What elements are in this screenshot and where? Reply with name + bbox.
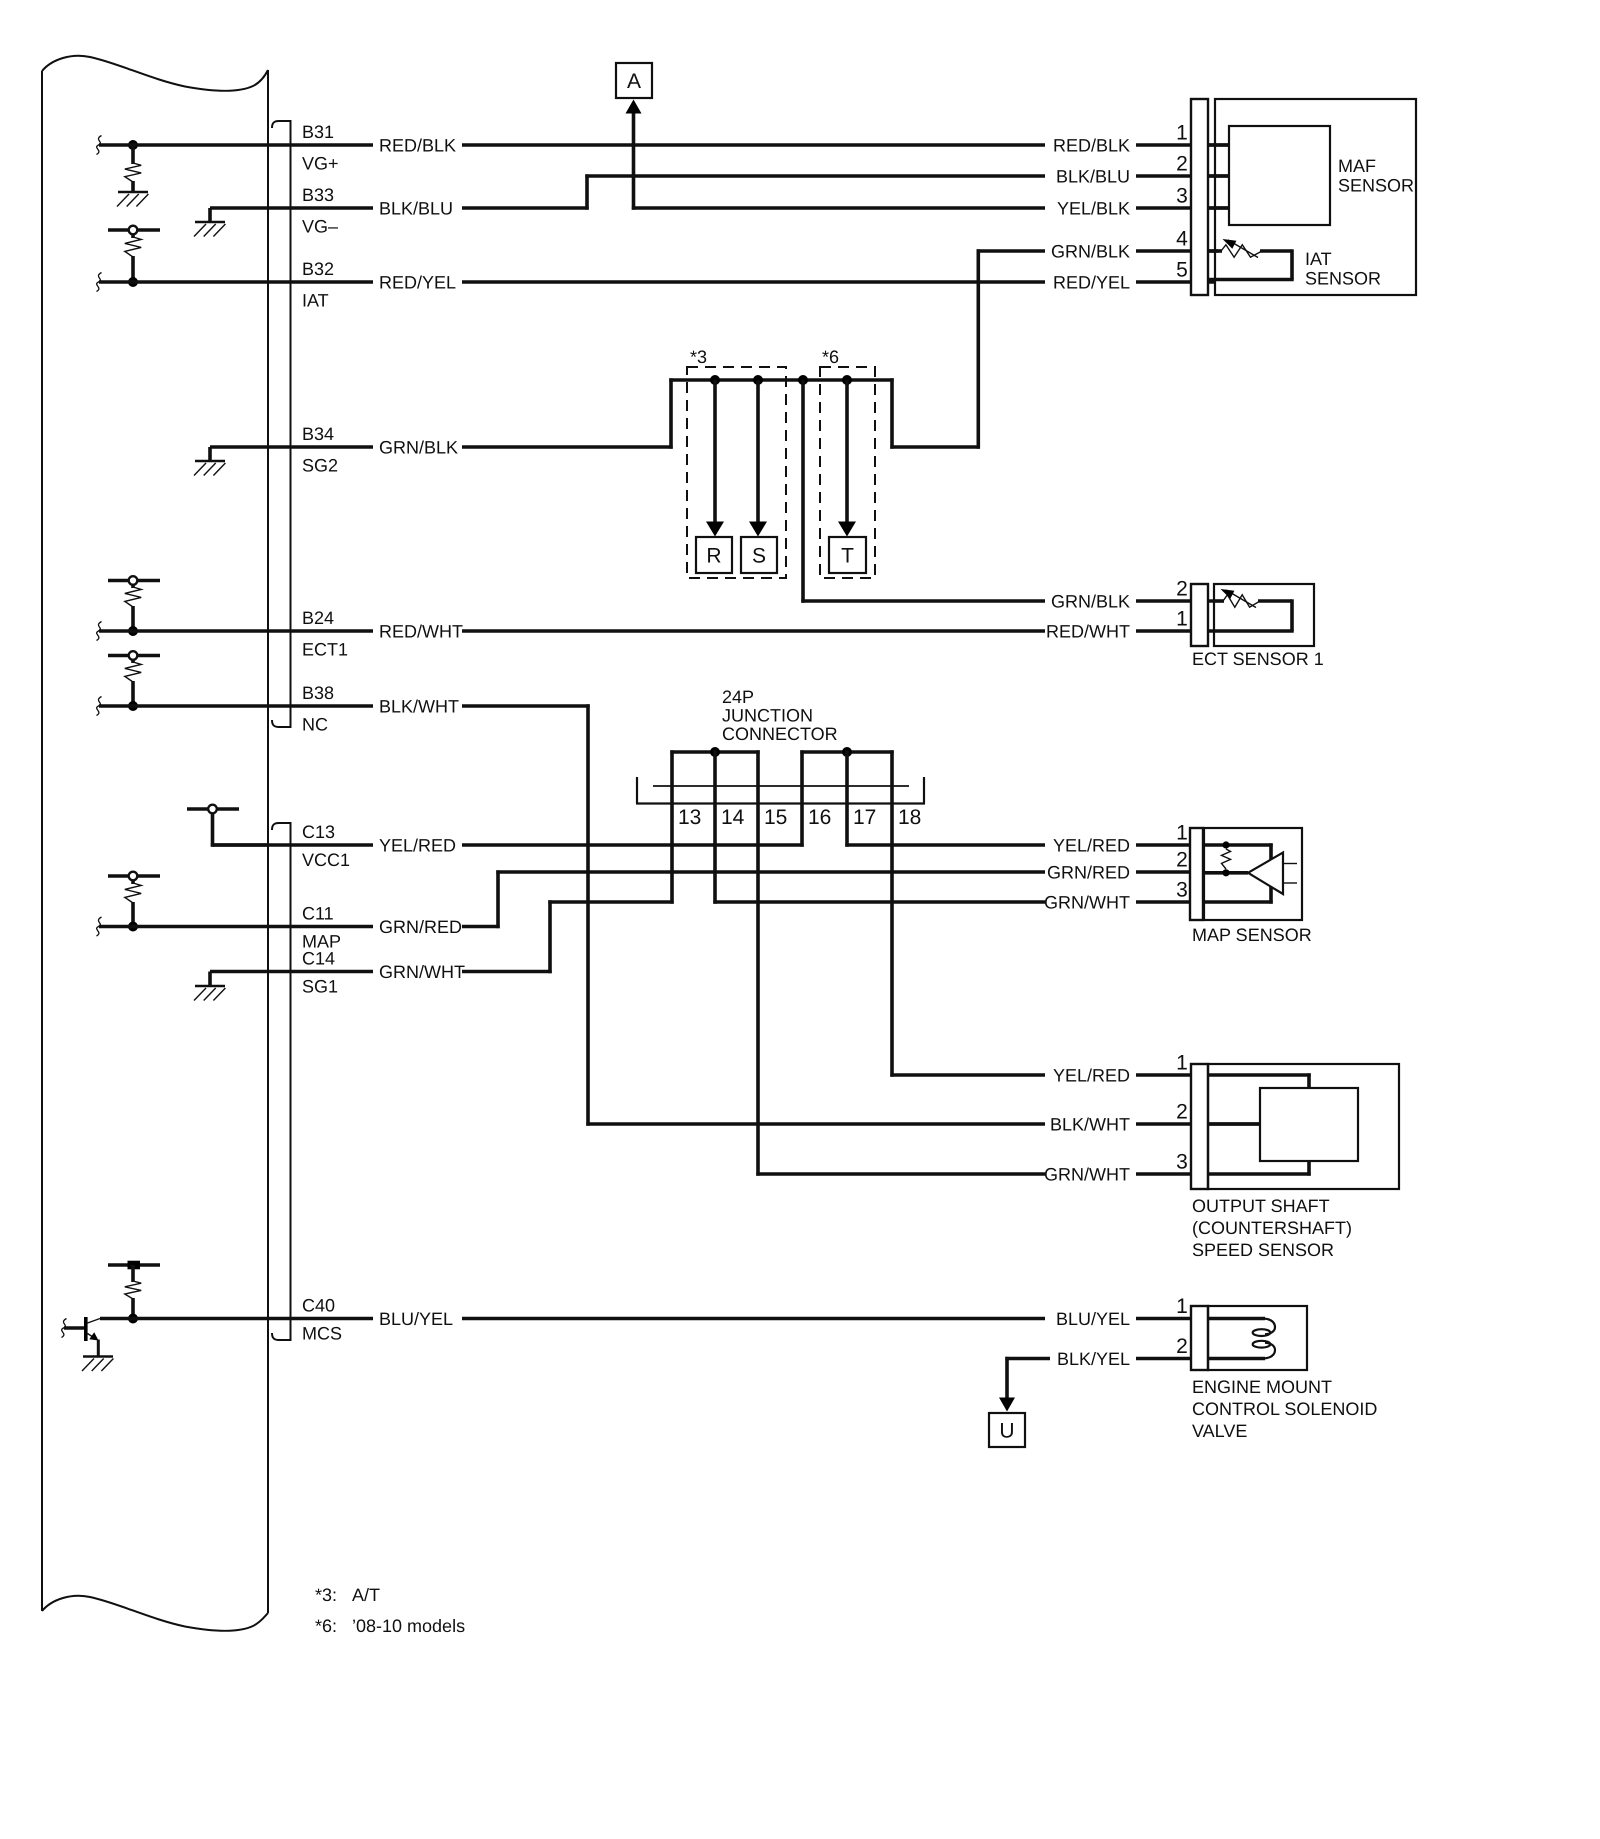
arrow wire to S xyxy=(756,380,760,523)
svg-text:IAT: IAT xyxy=(302,290,329,310)
svg-text:*3:: *3: xyxy=(315,1585,337,1605)
junction dot B24 xyxy=(128,626,138,636)
wire label BLK/YEL (right) y1358.5 xyxy=(1057,1349,1130,1369)
arrowhead S xyxy=(749,522,767,537)
svg-text:GRN/BLK: GRN/BLK xyxy=(1051,592,1130,612)
pin B34 label xyxy=(302,424,334,444)
svg-text:(COUNTERSHAFT): (COUNTERSHAFT) xyxy=(1192,1218,1352,1238)
MAP connector bracket xyxy=(1190,828,1203,920)
svg-text:4: 4 xyxy=(1176,228,1188,251)
pin B38 label xyxy=(302,683,334,703)
svg-text:ECT SENSOR 1: ECT SENSOR 1 xyxy=(1192,649,1324,669)
24P junction connector tray xyxy=(636,777,925,804)
svg-text:YEL/RED: YEL/RED xyxy=(1053,1066,1130,1086)
svg-text:*6:: *6: xyxy=(315,1616,337,1636)
speed sensor connector bracket xyxy=(1191,1064,1208,1189)
label MAP SENSOR xyxy=(1192,925,1312,945)
resistor R-B24 pullup xyxy=(125,585,141,632)
label ENGINE MOUNT CONTROL SOLENOID VALVE xyxy=(1192,1377,1377,1441)
wire label GRN/WHT (right) y1174 xyxy=(1044,1165,1130,1185)
svg-text:B31: B31 xyxy=(302,122,334,142)
svg-text:SG2: SG2 xyxy=(302,455,338,475)
ground for Q1 emitter xyxy=(82,1357,113,1372)
svg-text:C11: C11 xyxy=(302,903,334,923)
transistor Q1 (MCS driver, NPN) xyxy=(64,1317,100,1357)
pin C40 name MCS xyxy=(302,1324,342,1344)
ECT thermistor arrow xyxy=(1221,589,1257,608)
svg-text:14: 14 xyxy=(721,806,745,829)
svg-text:RED/WHT: RED/WHT xyxy=(379,622,463,642)
wire break mark at B31 wire xyxy=(97,136,102,155)
svg-text:13: 13 xyxy=(678,806,701,829)
junction dot bus-ECT xyxy=(798,375,808,385)
connector U letter xyxy=(999,1420,1014,1443)
supply rail for B24 pullup xyxy=(108,579,160,583)
ECT connector bracket xyxy=(1191,584,1208,646)
junction dot staple 17 xyxy=(842,747,852,757)
wire SG2/GRN-BLK net: B34 to bus xyxy=(210,378,673,448)
label MAF SENSOR xyxy=(1338,156,1414,196)
resistor in MAP sensor xyxy=(1222,849,1231,869)
supply rail for B38 pullup xyxy=(108,654,160,658)
svg-text:A/T: A/T xyxy=(352,1585,380,1605)
svg-text:BLK/BLU: BLK/BLU xyxy=(1056,167,1130,187)
ground for VG- xyxy=(194,222,225,237)
ECM connector bracket B (pins B31-B38) xyxy=(272,121,291,727)
wire BLK/WHT net: B38 to output shaft speed sensor pin 2 xyxy=(99,704,1260,1125)
pin C14 label xyxy=(302,948,335,968)
wire label GRN/BLK (left) xyxy=(379,438,458,458)
junction pin number 15 xyxy=(764,806,787,829)
junction pin number 14 xyxy=(721,806,745,829)
label OUTPUT SHAFT (COUNTERSHAFT) SPEED SENSOR xyxy=(1192,1196,1352,1260)
MAF pin stubs into unit xyxy=(1208,145,1229,208)
speed sensor internal wiring xyxy=(1208,1073,1311,1175)
svg-text:BLK/YEL: BLK/YEL xyxy=(1057,1349,1130,1369)
supply rail for C11 pullup xyxy=(108,874,160,878)
svg-text:B33: B33 xyxy=(302,185,334,205)
svg-text:MAF: MAF xyxy=(1338,156,1376,176)
solenoid connector bracket xyxy=(1191,1306,1208,1370)
ECM connector bracket C (pins C13-C40) xyxy=(272,823,291,1340)
junction pin 15 drop to speed sensor pin 3 xyxy=(756,750,1208,1175)
svg-text:YEL/BLK: YEL/BLK xyxy=(1057,199,1130,219)
svg-text:1: 1 xyxy=(1176,608,1188,631)
MAF/IAT connector bracket xyxy=(1191,99,1208,295)
wire VG- net: B33 BLK/BLU to MAF pin 2 xyxy=(210,174,1229,209)
label *6 xyxy=(822,347,839,367)
wire label GRN/WHT (right) y902 xyxy=(1044,893,1130,913)
op-amp U-MAP buffer triangle xyxy=(1248,853,1297,895)
wire GRN/BLK jog to MAF pin 4 xyxy=(890,249,1218,448)
wire IAT net: B32 RED/YEL to MAF pin 5 xyxy=(99,280,1216,284)
svg-text:17: 17 xyxy=(853,806,876,829)
pin B34 name SG2 xyxy=(302,455,338,475)
pin B31 label xyxy=(302,122,334,142)
IAT thermistor element xyxy=(1208,245,1294,280)
connector R box xyxy=(696,537,732,573)
svg-text:MAP SENSOR: MAP SENSOR xyxy=(1192,925,1312,945)
wire label YEL/RED (right) y1075 xyxy=(1053,1066,1130,1086)
ground for SG1 xyxy=(194,986,225,1001)
label *3 xyxy=(690,347,707,367)
svg-text:2: 2 xyxy=(1176,153,1188,176)
pin C11 name MAP xyxy=(302,932,341,952)
svg-text:B24: B24 xyxy=(302,608,334,628)
wire label BLU/YEL (right) y1318.5 xyxy=(1056,1309,1130,1329)
wire label RED/YEL (right) y282 xyxy=(1053,273,1130,293)
svg-text:RED/BLK: RED/BLK xyxy=(379,136,456,156)
ground for R-B31 xyxy=(117,192,148,207)
pin number 4 y251 xyxy=(1176,228,1188,251)
svg-text:BLU/YEL: BLU/YEL xyxy=(1056,1309,1130,1329)
ground for SG2 xyxy=(194,461,225,476)
pin number 5 y282 xyxy=(1176,259,1188,282)
svg-text:C13: C13 xyxy=(302,822,335,842)
wire label RED/BLK (right) y145 xyxy=(1053,136,1130,156)
MAP sensor box xyxy=(1204,828,1302,920)
junction pin 17 drop to MAP pin 1 xyxy=(845,750,1204,846)
wire label RED/BLK (left) xyxy=(379,136,456,156)
wire label BLK/BLU (right) y176 xyxy=(1056,167,1130,187)
MAF sensor outer box xyxy=(1215,99,1416,295)
open node circle C11 rail xyxy=(129,872,138,881)
svg-text:RED/YEL: RED/YEL xyxy=(1053,273,1130,293)
connector S letter xyxy=(752,545,766,568)
pin B32 name IAT xyxy=(302,290,329,310)
wire GRN/WHT net: C14 SG1 to junction 13 xyxy=(210,750,674,973)
svg-text:VG+: VG+ xyxy=(302,153,339,173)
junction dot C40 xyxy=(128,1314,138,1324)
pin number 2 y601 xyxy=(1176,578,1188,601)
svg-text:24P: 24P xyxy=(722,687,754,707)
label ECT SENSOR 1 xyxy=(1192,649,1324,669)
lead C13 rail to wire xyxy=(211,813,268,847)
solenoid coil L1 xyxy=(1253,1319,1275,1359)
pin B31 name VG+ xyxy=(302,153,339,173)
svg-text:5: 5 xyxy=(1176,259,1188,282)
svg-text:S: S xyxy=(752,545,766,568)
svg-text:SENSOR: SENSOR xyxy=(1305,269,1381,289)
svg-text:A: A xyxy=(627,70,641,93)
pin B32 label xyxy=(302,259,334,279)
wire label GRN/RED (left) xyxy=(379,917,462,937)
svg-text:BLK/WHT: BLK/WHT xyxy=(379,697,459,717)
wire label RED/WHT (right) y631 xyxy=(1046,622,1130,642)
ground lead VG- (B33) xyxy=(208,208,212,222)
wire break mark at B24 wire xyxy=(97,622,102,641)
connector T letter xyxy=(841,545,854,568)
svg-text:1: 1 xyxy=(1176,1052,1188,1075)
dashed option box *6 xyxy=(820,367,875,578)
footnote *3: A/T xyxy=(315,1585,380,1605)
pin number 1 y1075 xyxy=(1176,1052,1188,1075)
junction staple 13-15 xyxy=(670,750,759,754)
svg-text:GRN/BLK: GRN/BLK xyxy=(379,438,458,458)
svg-text:GRN/RED: GRN/RED xyxy=(1047,863,1130,883)
connector A box xyxy=(616,63,652,98)
arrowhead into U xyxy=(999,1398,1015,1412)
svg-text:3: 3 xyxy=(1176,185,1188,208)
pin number 2 y176 xyxy=(1176,153,1188,176)
MAP internal wiring xyxy=(1204,843,1273,903)
junction dot MAP pin2 xyxy=(1222,869,1229,876)
junction dot C11 xyxy=(128,922,138,932)
pin number 3 y208 xyxy=(1176,185,1188,208)
svg-text:VALVE: VALVE xyxy=(1192,1421,1247,1441)
svg-text:CONTROL SOLENOID: CONTROL SOLENOID xyxy=(1192,1399,1377,1419)
pin B33 label xyxy=(302,185,334,205)
wire YEL/BLK net: MAF pin 3 to connector A xyxy=(632,111,1229,210)
arrowhead R xyxy=(706,522,724,537)
connector U box xyxy=(989,1413,1025,1447)
wire break mark at B38 wire xyxy=(97,697,102,716)
svg-text:3: 3 xyxy=(1176,879,1188,902)
svg-text:GRN/WHT: GRN/WHT xyxy=(1044,893,1130,913)
svg-text:18: 18 xyxy=(898,806,921,829)
svg-text:ECT1: ECT1 xyxy=(302,639,348,659)
arrow wire to T xyxy=(845,380,849,523)
svg-text:1: 1 xyxy=(1176,822,1188,845)
arrow wire to R xyxy=(713,380,717,523)
connector R letter xyxy=(706,545,721,568)
svg-text:NC: NC xyxy=(302,714,328,734)
pin number 1 y845 xyxy=(1176,822,1188,845)
wire label YEL/RED (right) y845 xyxy=(1053,836,1130,856)
wire label BLK/WHT (right) y1124 xyxy=(1050,1115,1130,1135)
svg-text:BLK/BLU: BLK/BLU xyxy=(379,199,453,219)
supply rail for B32 thermistor pullup xyxy=(108,228,160,232)
svg-text:GRN/WHT: GRN/WHT xyxy=(1044,1165,1130,1185)
ground lead SG1 (C14) xyxy=(208,972,212,987)
wire break mark at C11 wire xyxy=(97,917,102,936)
pin C11 label xyxy=(302,903,334,923)
wire label RED/WHT (left) xyxy=(379,622,463,642)
svg-text:BLU/YEL: BLU/YEL xyxy=(379,1309,453,1329)
svg-text:GRN/WHT: GRN/WHT xyxy=(379,962,465,982)
wire break mark at B32 wire xyxy=(97,273,102,292)
resistor R-C40 xyxy=(125,1265,141,1319)
wire GRN/BLK drop to ECT pin 2 xyxy=(801,380,1215,603)
svg-text:R: R xyxy=(706,545,721,568)
svg-text:GRN/BLK: GRN/BLK xyxy=(1051,242,1130,262)
junction dot bus-S xyxy=(753,375,763,385)
wire RED/WHT net: B24 to ECT pin 1 xyxy=(99,629,1215,633)
wire VG+ net: B31 RED/BLK to MAF pin 1 xyxy=(99,143,1229,147)
supply rail for C13 (VCC1) xyxy=(187,807,239,811)
svg-text:C40: C40 xyxy=(302,1295,335,1315)
svg-text:15: 15 xyxy=(764,806,787,829)
svg-text:B32: B32 xyxy=(302,259,334,279)
wire label RED/YEL (left) xyxy=(379,273,456,293)
wire BLK/YEL net: solenoid pin 2 to connector U xyxy=(1005,1357,1265,1398)
pin number 2 y1358.5 xyxy=(1176,1335,1188,1358)
svg-text:2: 2 xyxy=(1176,849,1188,872)
pin B24 label xyxy=(302,608,334,628)
svg-text:ENGINE MOUNT: ENGINE MOUNT xyxy=(1192,1377,1332,1397)
pin B38 name NC xyxy=(302,714,328,734)
ground lead SG2 (B34) xyxy=(208,447,212,461)
label IAT SENSOR xyxy=(1305,249,1381,289)
wire GRN/BLK bus over *3/*6 xyxy=(669,378,893,382)
connector T box xyxy=(829,537,866,573)
wire YEL/RED net: C13 VCC1 to junction 16 xyxy=(213,750,804,846)
junction pin 14 drop to MAP pin 3 xyxy=(713,750,1204,903)
pin number 1 y1318.5 xyxy=(1176,1295,1188,1318)
resistor R-B31 pulldown with junction xyxy=(125,140,141,192)
svg-text:B38: B38 xyxy=(302,683,334,703)
svg-text:16: 16 xyxy=(808,806,831,829)
wire GRN/RED net: C11 MAP signal to MAP pin 2 xyxy=(99,870,1204,928)
open node circle B24 rail xyxy=(129,576,138,585)
svg-text:YEL/RED: YEL/RED xyxy=(1053,836,1130,856)
wire label GRN/RED (right) y872 xyxy=(1047,863,1130,883)
svg-text:B34: B34 xyxy=(302,424,334,444)
pin B24 name ECT1 xyxy=(302,639,348,659)
pin number 1 y631 xyxy=(1176,608,1188,631)
svg-text:VCC1: VCC1 xyxy=(302,850,350,870)
junction dot bus-T xyxy=(842,375,852,385)
open node circle B32 rail xyxy=(129,226,138,235)
junction pin number 17 xyxy=(853,806,876,829)
wire label GRN/WHT (left) xyxy=(379,962,465,982)
supply block on C40 rail xyxy=(128,1261,141,1270)
wire label YEL/RED (left) xyxy=(379,836,456,856)
svg-text:T: T xyxy=(841,545,854,568)
junction pin number 18 xyxy=(898,806,921,829)
dashed option box *3 xyxy=(687,367,786,578)
svg-text:RED/BLK: RED/BLK xyxy=(1053,136,1130,156)
open node circle C13 rail xyxy=(208,805,217,814)
junction dot B38 xyxy=(128,701,138,711)
arrowhead T xyxy=(838,522,856,537)
pin number 1 y145 xyxy=(1176,122,1188,145)
wire label YEL/BLK (right) y208 xyxy=(1057,199,1130,219)
pin C40 label xyxy=(302,1295,335,1315)
svg-text:VG–: VG– xyxy=(302,216,338,236)
svg-text:SG1: SG1 xyxy=(302,977,338,997)
connector A letter xyxy=(627,70,641,93)
pin C14 name SG1 xyxy=(302,977,338,997)
svg-text:2: 2 xyxy=(1176,1101,1188,1124)
pin number 3 y1174 xyxy=(1176,1151,1188,1174)
IAT thermistor arrow xyxy=(1223,239,1259,258)
connector S box xyxy=(741,537,777,573)
output shaft speed sensor inner box xyxy=(1260,1088,1358,1161)
pin C13 name VCC1 xyxy=(302,850,350,870)
wire label GRN/BLK (right) y601 xyxy=(1051,592,1130,612)
svg-text:BLK/WHT: BLK/WHT xyxy=(1050,1115,1130,1135)
junction pin 18 drop to speed sensor pin 1 xyxy=(890,750,1208,1076)
junction dot B32 xyxy=(128,277,138,287)
ECT thermistor element xyxy=(1214,595,1294,631)
svg-text:1: 1 xyxy=(1176,1295,1188,1318)
svg-text:MCS: MCS xyxy=(302,1324,342,1344)
pin number 3 y902 xyxy=(1176,879,1188,902)
svg-text:2: 2 xyxy=(1176,1335,1188,1358)
svg-text:1: 1 xyxy=(1176,122,1188,145)
MAF sensor inner unit box xyxy=(1229,126,1330,225)
svg-text:OUTPUT SHAFT: OUTPUT SHAFT xyxy=(1192,1196,1330,1216)
open node circle B38 rail xyxy=(129,651,138,660)
engine mount control solenoid valve box xyxy=(1208,1306,1307,1370)
svg-text:2: 2 xyxy=(1176,578,1188,601)
wire MCS net: C40 BLU/YEL to solenoid pin 1 xyxy=(100,1317,1265,1321)
supply rail for C40 driver xyxy=(108,1263,160,1267)
svg-text:GRN/RED: GRN/RED xyxy=(379,917,462,937)
pin C13 label xyxy=(302,822,335,842)
ECT sensor 1 box xyxy=(1214,584,1314,646)
arrowhead into A xyxy=(626,100,642,114)
label 24P JUNCTION CONNECTOR xyxy=(722,687,838,744)
resistor R-B32 pullup xyxy=(125,234,141,282)
svg-text:3: 3 xyxy=(1176,1151,1188,1174)
svg-text:CONNECTOR: CONNECTOR xyxy=(722,724,838,744)
junction dot MAP pin1 xyxy=(1222,841,1229,848)
svg-text:*3: *3 xyxy=(690,347,707,367)
svg-text:YEL/RED: YEL/RED xyxy=(379,836,456,856)
wire break mark at Q1 base xyxy=(62,1319,67,1338)
ECM body outline (torn edges) xyxy=(42,56,268,1631)
svg-text:SENSOR: SENSOR xyxy=(1338,176,1414,196)
junction dot staple 14 xyxy=(710,747,720,757)
pin number 2 y872 xyxy=(1176,849,1188,872)
junction pin number 16 xyxy=(808,806,831,829)
svg-text:IAT: IAT xyxy=(1305,249,1332,269)
svg-text:C14: C14 xyxy=(302,948,335,968)
wire label BLU/YEL (left) xyxy=(379,1309,453,1329)
svg-text:U: U xyxy=(999,1420,1014,1443)
footnote *6: 08-10 models xyxy=(315,1616,465,1636)
pin B33 name VG– xyxy=(302,216,338,236)
wire label BLK/BLU (left) xyxy=(379,199,453,219)
junction staple 16-18 xyxy=(800,750,893,754)
resistor R-C11 pullup xyxy=(125,880,141,927)
pin number 2 y1124 xyxy=(1176,1101,1188,1124)
svg-text:JUNCTION: JUNCTION xyxy=(722,706,813,726)
junction dot bus-R xyxy=(710,375,720,385)
svg-text:SPEED SENSOR: SPEED SENSOR xyxy=(1192,1240,1334,1260)
junction pin number 13 xyxy=(678,806,701,829)
output shaft speed sensor outer box xyxy=(1208,1064,1399,1189)
wire label BLK/WHT (left) xyxy=(379,697,459,717)
svg-text:*6: *6 xyxy=(822,347,839,367)
svg-text:RED/WHT: RED/WHT xyxy=(1046,622,1130,642)
resistor R-B38 pullup xyxy=(125,660,141,707)
wire label GRN/BLK (right) y251 xyxy=(1051,242,1130,262)
svg-text:’08-10 models: ’08-10 models xyxy=(352,1616,465,1636)
svg-text:RED/YEL: RED/YEL xyxy=(379,273,456,293)
